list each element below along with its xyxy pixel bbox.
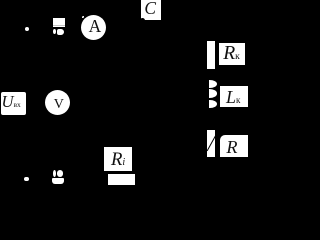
resistor R body (variable): [207, 130, 215, 157]
label Rk box: [219, 43, 245, 65]
node: input terminal top-left: [25, 27, 30, 32]
resistor Ri body: [108, 174, 135, 185]
inductor Lk bumps: [209, 80, 217, 88]
label Ri box: [104, 147, 132, 171]
arrow line across resistor R: [207, 136, 216, 151]
generator G1 (source symbol, upper blobs): [53, 18, 65, 28]
wire junction speck near ammeter: [82, 16, 84, 19]
resistor Rk body: [207, 41, 215, 69]
ammeter A: [81, 15, 106, 40]
label Lk box: [220, 86, 248, 107]
voltmeter V: [45, 90, 70, 115]
capacitor C label box: [141, 0, 161, 20]
node: input terminal bottom-left: [24, 177, 29, 182]
label R box: [220, 135, 248, 157]
node: junction dot on wire under C box: [140, 18, 145, 23]
source Uvx label box: [1, 92, 26, 115]
generator G1 (source symbol, lower blobs): [53, 170, 56, 177]
